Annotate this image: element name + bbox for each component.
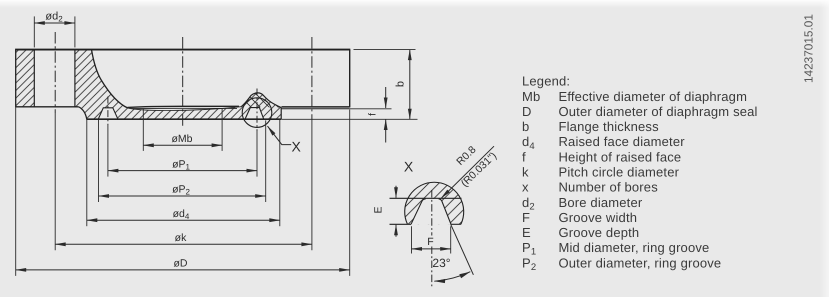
svg-text:Groove width: Groove width: [559, 210, 638, 225]
dimension f (vertical, arrows outside): [385, 87, 387, 108]
extension lines: [33, 16, 35, 47]
detail hatched blob: [402, 180, 464, 225]
weld bump outline: [241, 93, 281, 108]
f top extension: [350, 108, 392, 110]
left ring groove notch (void): [98, 108, 117, 119]
svg-text:øD: øD: [174, 258, 188, 270]
svg-text:Bore diameter: Bore diameter: [559, 195, 643, 210]
dimension k: [55, 243, 312, 245]
raised face right step: [280, 108, 282, 120]
right pitch circle centerline: [311, 37, 313, 120]
underside left: [16, 106, 79, 108]
detail bottom surface lines: [390, 223, 412, 225]
bolt bore left wall: [33, 50, 35, 107]
left flange block, hatched: [16, 50, 35, 107]
svg-text:F: F: [427, 236, 433, 248]
diaphragm double line: [128, 106, 240, 107]
svg-text:Height of raised face: Height of raised face: [559, 149, 682, 164]
svg-text:Raised face diameter: Raised face diameter: [559, 134, 686, 149]
detail blob boundary arc: [405, 182, 464, 224]
raised face fillet: [79, 107, 87, 119]
detail groove walls: [411, 199, 426, 224]
dimension F: [412, 248, 451, 250]
svg-text:Effective diameter of diaphrag: Effective diameter of diaphragm: [559, 89, 748, 104]
right rim underside double line: [282, 106, 350, 108]
svg-text:øMb: øMb: [172, 133, 193, 145]
hub concave curve: [92, 50, 128, 108]
b top extension: [354, 49, 416, 51]
left edge: [15, 50, 17, 108]
svg-text:E: E: [522, 225, 531, 240]
right edge: [349, 50, 351, 108]
svg-text:X: X: [292, 138, 302, 154]
svg-text:Groove depth: Groove depth: [559, 225, 640, 240]
svg-text:Pitch circle diameter: Pitch circle diameter: [559, 165, 680, 180]
dimension D: [16, 269, 350, 271]
right groove centerline: [256, 89, 258, 132]
svg-text:Outer diameter of diaphragm se: Outer diameter of diaphragm seal: [559, 104, 758, 119]
svg-text:f: f: [368, 113, 379, 116]
left groove centerline: [107, 97, 109, 126]
svg-text:øk: øk: [175, 232, 187, 244]
dimension P1: [108, 170, 257, 172]
dimension d4: [87, 219, 280, 221]
weld bump crosshatch overlay: [241, 93, 281, 108]
R0.8 leader: [442, 146, 495, 198]
svg-text:F: F: [522, 210, 530, 225]
detail top surface line: [390, 197, 462, 199]
svg-text:14237015.01: 14237015.01: [802, 14, 816, 83]
svg-text:x: x: [522, 180, 529, 195]
right ring groove (void): [245, 108, 264, 120]
svg-text:D: D: [522, 104, 532, 119]
svg-text:X: X: [404, 159, 414, 175]
svg-text:Number of bores: Number of bores: [559, 180, 659, 195]
svg-text:k: k: [522, 165, 529, 180]
b/f bottom extension: [282, 118, 418, 120]
bolt hole centerline: [54, 32, 56, 113]
flange outline: top edge: [15, 49, 350, 51]
raised face bottom: [86, 118, 281, 120]
svg-text:Outer diameter, ring groove: Outer diameter, ring groove: [559, 255, 722, 270]
membrane bed wavy line: [128, 107, 242, 111]
dimension d2: [34, 22, 75, 24]
F extension lines: [411, 226, 413, 253]
23 degree slant line: [451, 224, 474, 274]
leader to X label: [268, 126, 292, 145]
svg-text:b: b: [522, 119, 529, 134]
svg-text:Mb: Mb: [522, 89, 540, 104]
svg-text:Mid diameter, ring groove: Mid diameter, ring groove: [559, 240, 710, 255]
svg-text:Legend:: Legend:: [522, 74, 570, 89]
main centerline: [182, 37, 184, 129]
svg-text:Flange thickness: Flange thickness: [559, 119, 660, 134]
dimension Mb: [143, 144, 222, 146]
dimension E (arrows outside): [395, 186, 397, 198]
23 degree arc: [434, 272, 470, 282]
bolt bore right wall: [74, 50, 76, 107]
detail centerline: [431, 190, 433, 288]
dimension P2: [99, 195, 266, 197]
svg-text:23°: 23°: [432, 256, 450, 270]
svg-text:f: f: [522, 149, 526, 164]
detail groove void: [411, 199, 451, 224]
svg-text:b: b: [394, 81, 406, 87]
flange metal section (hub + diaphragm bed + raised face), hatched: [75, 50, 281, 120]
detail circle callout: [242, 98, 272, 128]
dimension b (vertical): [409, 50, 411, 120]
svg-text:E: E: [373, 206, 385, 213]
